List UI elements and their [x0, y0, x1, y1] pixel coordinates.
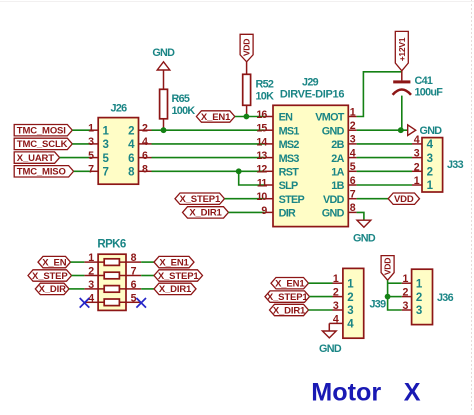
svg-text:1: 1: [350, 106, 356, 118]
svg-text:8: 8: [131, 252, 137, 264]
svg-text:VDD: VDD: [323, 194, 345, 206]
svg-text:5: 5: [131, 292, 137, 304]
svg-text:X_DIR1: X_DIR1: [159, 284, 192, 295]
resistor R52 10K: [243, 74, 274, 116]
svg-text:X_UART: X_UART: [17, 153, 54, 164]
resistor network RPK6: [84, 238, 141, 310]
svg-text:X_DIR: X_DIR: [39, 284, 67, 295]
svg-text:MS1: MS1: [279, 125, 300, 137]
connector J33: [412, 134, 464, 192]
svg-text:1A: 1A: [331, 167, 344, 179]
svg-text:J36: J36: [437, 292, 454, 304]
svg-text:STEP: STEP: [279, 194, 305, 206]
svg-text:10: 10: [256, 191, 267, 203]
svg-text:J29: J29: [302, 76, 319, 88]
svg-text:2: 2: [403, 287, 409, 299]
wire VDD to J36: [388, 280, 402, 310]
power symbol GND (below pin 8): [353, 220, 376, 244]
svg-text:7: 7: [131, 266, 137, 278]
svg-text:GND: GND: [322, 125, 345, 137]
svg-text:15: 15: [256, 123, 267, 135]
svg-text:2B: 2B: [331, 139, 344, 151]
global label X_STEP1 (RPK6): [154, 270, 203, 282]
wire RPK6 pin8: [141, 261, 154, 263]
global label X_STEP1 (left of STEP pin): [175, 193, 225, 205]
junction on EN row: [244, 114, 250, 120]
svg-text:GND: GND: [420, 125, 443, 137]
wire: [60, 157, 91, 159]
wire 1B row to J33 pin 1: [357, 184, 412, 186]
svg-text:VDD: VDD: [383, 258, 393, 275]
svg-text:+12V1: +12V1: [397, 37, 407, 61]
svg-text:7: 7: [350, 189, 356, 201]
capacitor C41 100uF: [393, 75, 444, 130]
svg-text:3: 3: [103, 139, 109, 151]
svg-text:J33: J33: [447, 159, 464, 171]
svg-text:2A: 2A: [331, 153, 344, 165]
wire VDD row (pin 7): [357, 198, 389, 200]
global label X_UART: [14, 152, 59, 164]
power symbol VDD (bottom): [381, 256, 394, 281]
svg-text:6: 6: [128, 153, 134, 165]
svg-text:100uF: 100uF: [415, 87, 444, 99]
svg-text:R52: R52: [256, 78, 274, 90]
svg-text:GND: GND: [322, 208, 345, 220]
resistor R65 100K: [160, 89, 196, 130]
wire: [72, 275, 85, 277]
svg-text:X: X: [404, 379, 421, 407]
global label TMC_MOSI: [14, 125, 72, 137]
svg-text:VMOT: VMOT: [315, 112, 344, 124]
svg-text:Motor: Motor: [311, 379, 381, 407]
svg-text:6: 6: [131, 279, 137, 291]
wire 1A row to J33 pin 2: [357, 170, 412, 172]
wire: [309, 309, 333, 311]
global label X_DIR: [35, 283, 69, 295]
wire J36 pin1: [388, 282, 402, 284]
power symbol +12V1: [395, 31, 408, 80]
global label X_STEP: [28, 270, 72, 282]
global label X_STEP1 (bottom): [265, 291, 310, 303]
svg-text:C41: C41: [415, 75, 433, 87]
wire MS2 row: [152, 143, 265, 145]
svg-text:2: 2: [427, 167, 433, 179]
svg-text:GND: GND: [319, 343, 342, 355]
junction R65/MS1: [161, 127, 167, 133]
svg-text:2: 2: [347, 292, 353, 304]
wire RST row: [152, 170, 265, 172]
no-connect X pin 5: [136, 298, 146, 308]
svg-text:X_DIR1: X_DIR1: [273, 305, 306, 316]
svg-text:2: 2: [128, 125, 134, 137]
svg-text:X_STEP1: X_STEP1: [158, 271, 200, 282]
svg-text:2: 2: [416, 292, 422, 304]
svg-text:J26: J26: [111, 102, 128, 114]
svg-text:14: 14: [256, 136, 267, 148]
svg-text:GND: GND: [353, 233, 376, 245]
svg-text:3: 3: [427, 153, 433, 165]
connector J39: [329, 268, 386, 338]
wire: [309, 282, 333, 284]
svg-text:16: 16: [256, 109, 267, 121]
power symbol GND (right of C41): [408, 125, 443, 137]
svg-text:EN: EN: [279, 112, 294, 124]
wire: [69, 288, 84, 290]
wire RPK6 pin6: [141, 288, 154, 290]
wire GND row (pin 2): [357, 129, 408, 131]
svg-text:6: 6: [350, 175, 356, 187]
svg-text:X_STEP1: X_STEP1: [267, 292, 309, 303]
wire VMOT to +12V1: [357, 72, 402, 117]
svg-text:11: 11: [257, 177, 268, 189]
junction C41/GND row: [398, 127, 404, 133]
global label VDD (pin 7): [388, 193, 419, 205]
svg-text:100K: 100K: [172, 105, 196, 117]
wire MS1 row: [152, 129, 265, 131]
svg-text:1B: 1B: [331, 180, 344, 192]
junction RST row: [236, 168, 242, 174]
svg-text:TMC_MISO: TMC_MISO: [17, 167, 66, 178]
power symbol GND (J39 pin 4): [319, 323, 342, 355]
svg-text:3: 3: [350, 134, 356, 146]
svg-text:MS3: MS3: [279, 153, 300, 165]
wire J36 pin2: [388, 296, 402, 298]
IC J29 DIRVE-DIP16: [256, 76, 356, 226]
svg-text:X_EN1: X_EN1: [201, 112, 231, 123]
wire: [72, 129, 91, 131]
global label X_DIR1 (bottom): [270, 304, 309, 316]
svg-text:TMC_SCLK: TMC_SCLK: [17, 139, 68, 150]
wire DIR row: [229, 211, 265, 213]
wire RPK6 pin7: [141, 275, 154, 277]
svg-text:2: 2: [350, 120, 356, 132]
svg-text:12: 12: [256, 164, 267, 176]
wire MS3 row: [152, 157, 265, 159]
wire 2A row to J33 pin 3: [357, 157, 412, 159]
svg-text:GND: GND: [152, 47, 175, 59]
svg-text:7: 7: [103, 167, 109, 179]
wire RST to SLP: [239, 171, 265, 185]
svg-text:RPK6: RPK6: [97, 238, 125, 250]
svg-text:RST: RST: [279, 167, 300, 179]
global label X_EN1 (top): [196, 111, 234, 123]
svg-text:X_EN: X_EN: [42, 257, 67, 268]
power symbol VDD (top): [240, 34, 253, 74]
title Motor X: [311, 379, 421, 407]
connector J26: [88, 102, 151, 184]
svg-text:SLP: SLP: [279, 180, 298, 192]
global label X_DIR1 (left of DIR pin): [183, 207, 229, 219]
svg-text:TMC_MOSI: TMC_MOSI: [17, 125, 66, 136]
power symbol GND (top, above R65): [152, 47, 175, 89]
wire: [72, 143, 91, 145]
wire 2B row to J33 pin 4: [357, 143, 412, 145]
svg-text:8: 8: [350, 202, 356, 214]
svg-text:MS2: MS2: [279, 139, 300, 151]
global label X_EN1 (RPK6): [154, 256, 194, 268]
wire: [74, 170, 91, 172]
no-connect X pin 4: [80, 298, 90, 308]
junction VDD/J36 pin2: [385, 294, 391, 300]
svg-text:VDD: VDD: [242, 39, 252, 56]
svg-text:X_DIR1: X_DIR1: [189, 208, 222, 219]
svg-text:X_EN1: X_EN1: [275, 279, 305, 290]
wire: [71, 261, 85, 263]
svg-text:J39: J39: [370, 299, 387, 311]
svg-text:13: 13: [256, 150, 267, 162]
wire pin 8 GND: [357, 212, 364, 220]
svg-text:VDD: VDD: [394, 194, 414, 205]
svg-text:5: 5: [350, 161, 356, 173]
svg-text:DIRVE-DIP16: DIRVE-DIP16: [280, 89, 345, 101]
global label TMC_MISO: [14, 166, 73, 178]
wire EN row: [235, 116, 265, 118]
sheet border (right, faint dotted): [471, 0, 473, 410]
svg-text:R65: R65: [172, 93, 190, 105]
svg-text:3: 3: [416, 305, 422, 317]
svg-text:1: 1: [403, 273, 409, 285]
svg-text:10K: 10K: [256, 90, 275, 102]
svg-text:DIR: DIR: [279, 208, 296, 220]
svg-text:X_STEP: X_STEP: [32, 271, 68, 282]
svg-text:3: 3: [347, 305, 353, 317]
svg-text:4: 4: [350, 147, 356, 159]
wire: [310, 296, 333, 298]
svg-text:X_EN1: X_EN1: [159, 257, 189, 268]
connector J36: [402, 269, 454, 324]
global label X_EN: [38, 256, 71, 268]
svg-text:3: 3: [403, 300, 409, 312]
svg-text:X_STEP1: X_STEP1: [179, 194, 221, 205]
global label X_EN1 (bottom): [271, 278, 309, 290]
wire STEP row: [225, 198, 265, 200]
global label X_DIR1 (RPK6): [154, 283, 196, 295]
global label TMC_SCLK: [14, 138, 72, 150]
